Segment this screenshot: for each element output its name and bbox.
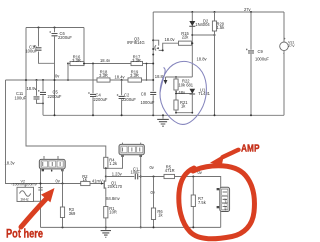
blue ellipse annotation around TL431 [160, 61, 206, 124]
wire row1 R17 to gate bus [143, 63, 154, 65]
node rail x=54.5 [54, 114, 56, 116]
svg-text:100uF: 100uF [25, 49, 37, 54]
node rail C8 [152, 114, 154, 116]
wire R7 branch [192, 177, 194, 228]
node rail C4 [92, 114, 94, 116]
module B pot lower [39, 156, 65, 169]
node C11 tap [36, 79, 38, 81]
node C9 top [250, 11, 252, 13]
capacitor C9 [246, 49, 269, 62]
node R7 rail [192, 226, 194, 228]
capacitor C11 [15, 91, 40, 100]
node C5 tap [42, 79, 44, 81]
capacitor C2 [117, 93, 137, 102]
wire mid 0v wire [106, 177, 221, 188]
node R20 top [214, 11, 216, 13]
svg-text:3.3R: 3.3R [72, 58, 81, 63]
diode U1 TL431 [190, 87, 211, 112]
wire right edge to Vs1 [283, 12, 285, 115]
red arrow to AMP label [223, 150, 239, 157]
svg-text:+: + [284, 37, 286, 41]
wire Q1 source to R1 [105, 196, 107, 227]
node D2 top [191, 11, 193, 13]
wire C4 branch [92, 64, 94, 116]
module A pot upper [119, 143, 144, 155]
source Vs1 27V [280, 37, 295, 55]
svg-text:471R: 471R [165, 168, 175, 173]
ground psu [157, 115, 169, 126]
svg-text:2200uF: 2200uF [122, 97, 136, 102]
module C amp load [217, 187, 230, 211]
wire D2 to R20 join [192, 34, 214, 36]
resistor R18 [97, 70, 110, 83]
svg-text:27V: 27V [288, 44, 295, 48]
capacitor C5 [38, 90, 62, 99]
transistor Q3 IRFI614G [127, 36, 179, 51]
wire module A left pin to R4 bottom [106, 155, 123, 169]
svg-text:2200uF: 2200uF [48, 94, 62, 99]
svg-text:1.2k: 1.2k [109, 161, 118, 166]
node R7 tap [192, 176, 194, 178]
svg-text:C9: C9 [258, 49, 264, 54]
svg-text:IRFI614G: IRFI614G [127, 40, 145, 45]
wire R6 branch [153, 177, 155, 228]
wire gate bus x=153.2 top [152, 12, 154, 115]
wire left column x=26 down to mid rail and on to R4 feed [26, 28, 106, 158]
svg-text:3.3R: 3.3R [99, 73, 108, 78]
node top-left rail / C10 tap [38, 27, 40, 29]
capacitor C4 [88, 92, 108, 102]
wire R22 bottom node [176, 90, 192, 100]
svg-text:10R: 10R [109, 210, 117, 215]
red arrow to Pot [21, 199, 46, 227]
svg-text:18.9v: 18.9v [27, 86, 38, 91]
svg-text:18.0v: 18.0v [165, 37, 176, 42]
node C2 tap [121, 79, 123, 81]
wire tie x=68 row1 to row2 [67, 64, 69, 81]
module B pin nubs [42, 169, 44, 171]
wire R15 to D2 bus [191, 42, 194, 44]
svg-text:3.3R: 3.3R [130, 73, 139, 78]
wire R4 bottom to drain node [105, 168, 107, 176]
wire TL431 top node [166, 76, 193, 78]
wire left border and 0v input wire [6, 80, 102, 184]
resistor R17 [131, 55, 143, 66]
svg-text:27v: 27v [244, 7, 252, 12]
transistor Q1 2SK170 [101, 177, 123, 197]
resistor R20 [212, 21, 225, 31]
wire module B middle stub [51, 169, 53, 171]
svg-text:2.48v: 2.48v [175, 90, 186, 95]
wire C2 branch [121, 80, 123, 115]
resistor R5 [164, 164, 175, 178]
node C6 tap [54, 27, 56, 29]
svg-text:3.3R: 3.3R [132, 58, 141, 63]
capacitor C10 [25, 45, 41, 54]
svg-text:7.5k: 7.5k [198, 200, 207, 205]
ground input stage [101, 227, 111, 237]
svg-text:1000uF: 1000uF [255, 57, 269, 62]
svg-text:1000uF: 1000uF [141, 100, 155, 105]
red circle annotation AMP [179, 166, 255, 239]
TL431 ref arrow [165, 77, 167, 80]
wire module A right pin down and on to ground rail [140, 155, 142, 228]
svg-text:10uF: 10uF [131, 170, 141, 175]
node x=26 on mid rail [25, 79, 27, 81]
wire C6 branch x=54.5 [54, 28, 56, 116]
wire module B left pin down to ground rail [40, 169, 42, 228]
resistor R4 [104, 157, 118, 168]
svg-text:2200uF: 2200uF [58, 35, 72, 40]
capacitor C6 [50, 31, 73, 40]
wire top-left rail [26, 27, 84, 29]
wire C9 branch x=251 [250, 12, 252, 115]
svg-text:1.23v: 1.23v [112, 171, 123, 176]
resistor R6 [151, 208, 163, 220]
resistor R1 [104, 206, 117, 218]
svg-text:3k9: 3k9 [69, 211, 76, 216]
svg-text:AMP: AMP [241, 143, 260, 154]
wire top rail 27v [153, 11, 284, 13]
svg-text:Pot here: Pot here [6, 227, 43, 241]
wire bottom PSU rail [43, 114, 284, 116]
wire ground rail bottom [41, 226, 221, 228]
node C6 line crossing mid rail [54, 79, 56, 81]
node rail C2 [121, 114, 123, 116]
svg-text:1N4004: 1N4004 [195, 22, 210, 27]
svg-text:487.1mV: 487.1mV [223, 198, 227, 210]
node R3 rail [62, 226, 64, 228]
module A pin nubs [121, 155, 123, 157]
node R16 left tie [67, 63, 69, 65]
svg-text:18.3v: 18.3v [5, 160, 16, 165]
wire C10 branch [39, 28, 55, 64]
resistor R2 [81, 174, 90, 185]
svg-text:18.8v: 18.8v [197, 56, 208, 61]
node R6 rail [153, 226, 155, 228]
svg-text:2200uF: 2200uF [94, 97, 108, 102]
diode D2 1N4004 [189, 19, 210, 28]
svg-text:-100mV/100mV: -100mV/100mV [11, 183, 37, 187]
node C4 tap row1 [92, 63, 94, 65]
node bus dots [152, 39, 154, 41]
wire TL431 bottom [176, 110, 192, 113]
svg-text:18.4v: 18.4v [100, 58, 111, 63]
capacitor C1 [131, 166, 141, 179]
wire tie x=146.5 [146, 64, 148, 81]
node R1 rail [105, 226, 107, 228]
svg-text:C8: C8 [141, 91, 147, 96]
capacitor C8 [141, 91, 157, 104]
node R6 tap [153, 176, 155, 178]
resistor R22 [174, 77, 194, 90]
wire module C bottom riser [220, 212, 222, 228]
wire right drop of top-left rail x=84 [83, 28, 85, 64]
node R22 top [175, 76, 177, 78]
svg-text:18.4v: 18.4v [115, 75, 126, 80]
wire C11 branch [37, 80, 44, 103]
wire module B right pin [62, 169, 64, 184]
wire R20 branch x=214.5 [214, 12, 216, 115]
resistor R3 [60, 207, 76, 218]
source V2 input [11, 179, 42, 201]
resistor R21 [174, 100, 188, 110]
svg-text:1.5k: 1.5k [217, 25, 226, 30]
svg-text:100uF: 100uF [15, 95, 27, 100]
node R15 join [191, 42, 193, 44]
wire R3 branch [62, 184, 64, 228]
svg-text:2SK170: 2SK170 [108, 184, 123, 189]
svg-text:10k 681: 10k 681 [179, 82, 194, 87]
wire D2 branch x=192.3 [191, 12, 193, 77]
resistor R7 [191, 195, 206, 207]
wire row1 R16 to R17 [84, 63, 131, 65]
wire C5 branch x=43 [42, 80, 44, 115]
resistor R16 [68, 55, 84, 66]
svg-text:22k: 22k [182, 35, 190, 40]
wire mid rail row2 y=80 [6, 79, 154, 81]
resistor R19 [128, 70, 142, 83]
svg-text:1kHz: 1kHz [20, 198, 29, 202]
svg-text:84.8mv: 84.8mv [106, 196, 120, 201]
svg-text:TL431: TL431 [198, 91, 210, 96]
resistor R15 [179, 31, 192, 45]
node D2/R20 join [191, 34, 193, 36]
